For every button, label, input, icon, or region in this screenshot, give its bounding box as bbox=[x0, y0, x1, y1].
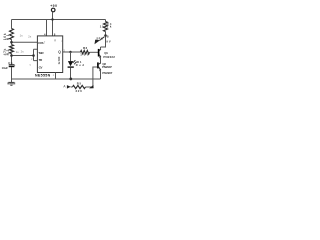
svg-text:220: 220 bbox=[76, 89, 83, 93]
svg-text:R5: R5 bbox=[77, 81, 82, 85]
svg-text:10uF: 10uF bbox=[2, 66, 9, 70]
resistor R4 bbox=[105, 20, 107, 22]
node B junction bbox=[104, 34, 107, 37]
resistor R5 220 bbox=[89, 85, 93, 89]
resistor R3 bbox=[80, 50, 89, 54]
wire GND pin to rail bbox=[55, 73, 57, 80]
svg-text:NE555N: NE555N bbox=[35, 74, 51, 78]
svg-text:1k: 1k bbox=[100, 24, 105, 28]
svg-text:C1: C1 bbox=[8, 61, 13, 65]
svg-text:R1: R1 bbox=[6, 34, 10, 40]
svg-text:PN2907: PN2907 bbox=[102, 71, 112, 75]
wire pin3 output bbox=[63, 51, 81, 53]
ground bbox=[11, 79, 13, 82]
LED D1 bbox=[70, 52, 72, 61]
svg-text:1k: 1k bbox=[107, 25, 112, 29]
svg-text:THR: THR bbox=[38, 51, 44, 55]
wire LED cathode to rail bbox=[70, 68, 72, 79]
svg-text:2s: 2s bbox=[21, 49, 25, 53]
svg-text:9V: 9V bbox=[106, 39, 110, 43]
resistor R2 bbox=[10, 45, 14, 54]
wire top +9V rail bbox=[12, 19, 106, 21]
wire to DIS pin bbox=[12, 41, 38, 43]
svg-text:+: + bbox=[14, 63, 16, 67]
svg-text:+9V: +9V bbox=[50, 4, 58, 8]
wire rail to pin4 bbox=[46, 20, 48, 36]
svg-text:R3: R3 bbox=[83, 46, 88, 50]
wire +9V to pin8 bbox=[52, 12, 54, 36]
svg-text:100: 100 bbox=[80, 53, 89, 57]
wire to THR and TR pins bbox=[12, 49, 38, 60]
svg-text:Q: Q bbox=[58, 50, 61, 54]
svg-text:1s: 1s bbox=[20, 34, 24, 38]
op-amp U1 555 timer box bbox=[37, 36, 62, 73]
svg-text:Red: Red bbox=[76, 63, 85, 67]
svg-text:PN2907: PN2907 bbox=[102, 65, 112, 69]
wire R3 to Q1 base bbox=[90, 51, 99, 53]
wire left rail segments bbox=[11, 20, 13, 80]
svg-text:GND: GND bbox=[57, 57, 61, 65]
resistor R1 bbox=[10, 29, 14, 40]
wire Q2 base to node A bbox=[86, 67, 98, 87]
svg-text:R2: R2 bbox=[6, 49, 10, 55]
svg-text:PN2222: PN2222 bbox=[103, 55, 115, 59]
svg-text:B: B bbox=[107, 35, 109, 38]
capacitor C1 bbox=[9, 64, 15, 66]
transistor Q1 PN2222 bbox=[100, 47, 102, 49]
transistor Q2 PN2907 bbox=[97, 62, 99, 68]
svg-text:2s: 2s bbox=[28, 34, 32, 38]
svg-text:R: R bbox=[54, 39, 56, 43]
wire bottom ground rail bbox=[12, 78, 101, 80]
node A arrow bbox=[71, 86, 73, 88]
svg-text:DIS: DIS bbox=[38, 41, 43, 45]
